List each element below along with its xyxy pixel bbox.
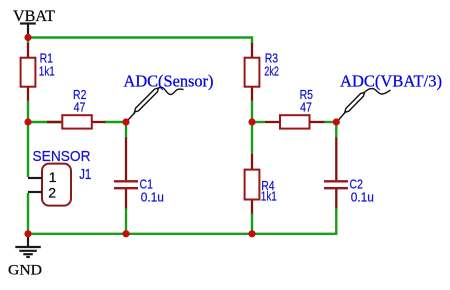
resistor R1 bottom pin	[27, 87, 29, 101]
junction node Sensor (R2/C1/probe)	[122, 118, 129, 125]
ground bar 3	[23, 253, 33, 255]
capacitor C2 bottom plate	[324, 187, 348, 189]
svg-text:GND: GND	[8, 262, 42, 278]
wire R3 bottom to node B	[251, 100, 253, 122]
wire VBAT dot to R1 top	[27, 38, 29, 45]
power symbol VBAT bar	[20, 22, 36, 24]
svg-text:47: 47	[300, 99, 312, 114]
wire R1 bottom to node A	[27, 100, 29, 122]
junction node VBAT/3 (R5/C2/probe)	[333, 118, 340, 125]
J1 pin 1 stub	[28, 177, 42, 179]
wire GND bottom rail	[28, 208, 336, 234]
svg-text:1: 1	[49, 169, 57, 185]
resistor R2 left pin	[47, 121, 62, 123]
wire node VBAT/3 down to C2	[335, 122, 337, 139]
junction at VBAT rail	[24, 34, 31, 41]
probe symbol at node VBAT/3	[339, 89, 391, 120]
wire R4 bottom to bottom rail	[251, 213, 253, 234]
resistor R3 body	[245, 58, 260, 87]
wire C1 bottom to bottom rail	[125, 208, 127, 234]
wire node B down to R4 top	[251, 122, 253, 154]
resistor R1 top pin	[27, 43, 29, 59]
resistor R4 body	[245, 170, 260, 200]
svg-text:ADC(VBAT/3): ADC(VBAT/3)	[340, 72, 442, 91]
power symbol VBAT stem	[27, 24, 29, 36]
connector J1 body	[42, 164, 71, 206]
wire node B to R5 left	[252, 121, 265, 123]
resistor R4 top pin	[251, 154, 253, 170]
resistor R3 bottom pin	[251, 87, 253, 101]
svg-text:0.1u: 0.1u	[141, 189, 164, 204]
svg-text:2k2: 2k2	[264, 64, 279, 79]
wire VBAT top rail	[28, 38, 252, 45]
capacitor C1 bottom plate	[114, 187, 138, 189]
wire R2 right to node Sensor	[105, 121, 127, 123]
ground bar 2	[19, 250, 37, 252]
wire R5 right to node VBAT/3	[325, 121, 337, 123]
svg-text:SENSOR: SENSOR	[33, 148, 91, 165]
capacitor C1 bottom pin	[125, 189, 127, 208]
svg-text:J1: J1	[79, 166, 91, 183]
wire pin 2 down to ground node	[27, 193, 29, 234]
junction node A (R1/R2/J1)	[24, 118, 31, 125]
resistor R4 bottom pin	[251, 200, 253, 214]
resistor R5 right pin	[310, 121, 325, 123]
capacitor C2 top pin	[335, 138, 337, 181]
J1 pin 2 stub	[28, 191, 42, 193]
junction node B (R3/R4/R5)	[248, 118, 255, 125]
capacitor C2 top plate	[324, 180, 348, 182]
resistor R2 right pin	[92, 121, 106, 123]
junction ground node	[24, 230, 31, 237]
junction R4 at bottom rail	[248, 230, 255, 237]
svg-text:1k1: 1k1	[39, 64, 55, 79]
svg-text:2: 2	[48, 184, 56, 200]
wire node A down to pin 1	[27, 122, 29, 177]
ground bar 4	[26, 256, 30, 258]
probe symbol at node Sensor	[128, 87, 184, 120]
capacitor C2 bottom pin	[335, 189, 337, 208]
svg-text:0.1u: 0.1u	[351, 189, 374, 204]
resistor R3 top pin	[251, 43, 253, 59]
resistor R2 body	[62, 115, 92, 128]
capacitor C1 top plate	[114, 180, 138, 182]
resistor R1 body	[21, 58, 36, 87]
junction C1 at bottom rail	[122, 230, 129, 237]
ground bar 1	[15, 246, 41, 248]
capacitor C1 top pin	[125, 138, 127, 181]
ground stem	[27, 234, 29, 247]
svg-text:ADC(Sensor): ADC(Sensor)	[124, 72, 214, 91]
wire node Sensor down to C1	[125, 122, 127, 139]
resistor R5 body	[280, 115, 310, 128]
svg-text:1k1: 1k1	[261, 189, 277, 204]
svg-text:47: 47	[74, 99, 86, 114]
svg-text:VBAT: VBAT	[13, 8, 55, 25]
wire node A to R2 left	[28, 121, 62, 123]
resistor R5 left pin	[265, 121, 280, 123]
